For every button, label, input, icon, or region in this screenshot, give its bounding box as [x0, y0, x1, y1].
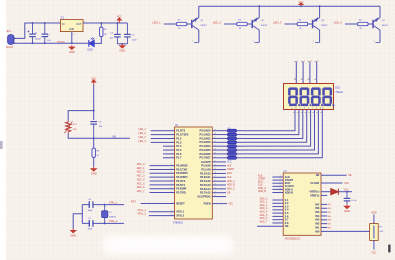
wire: P0.3 to resistor — [212, 141, 227, 143]
svg-text:39: 39 — [214, 129, 216, 131]
svg-text:34: 34 — [214, 149, 216, 151]
wire: MCU right pin row 2 — [212, 169, 226, 171]
wire: resistor to segment bus row 0 — [237, 130, 245, 132]
svg-text:IN: IN — [62, 23, 65, 26]
svg-text:9v DC: 9v DC — [6, 46, 13, 49]
wire: resistor to segment bus row 3 — [237, 141, 245, 143]
svg-text:P3.6/WR: P3.6/WR — [176, 187, 186, 191]
wire: VREF+ to diode — [321, 191, 331, 193]
wire: LED_3 to P1.2 — [151, 138, 175, 140]
svg-text:ADC_7: ADC_7 — [260, 220, 268, 223]
svg-text:10K: 10K — [73, 129, 77, 131]
wire: ADC_6 to P3.6 — [150, 188, 175, 190]
pin tick collector 1 — [194, 41, 199, 43]
wire: C3/C4 bottoms join — [117, 43, 127, 45]
resistor R2b segment array — [227, 133, 236, 136]
svg-text:RESET: RESET — [176, 201, 185, 205]
svg-text:35: 35 — [214, 145, 216, 147]
svg-text:S9012: S9012 — [200, 25, 207, 27]
wire: ADC_5 to P3.5 — [150, 184, 175, 186]
junction: crystal bottom — [104, 222, 106, 224]
svg-text:P1.7: P1.7 — [176, 156, 182, 160]
svg-text:18: 18 — [171, 214, 173, 216]
display digit 4 — [322, 87, 334, 106]
ground (vref cap) — [343, 204, 351, 209]
svg-text:2: 2 — [304, 61, 305, 63]
svg-text:7: 7 — [171, 153, 172, 155]
svg-text:RST: RST — [131, 201, 136, 204]
wire: MCU right pin row 9 — [212, 196, 226, 198]
svg-text:29: 29 — [214, 168, 216, 170]
svg-text:12: 12 — [171, 172, 173, 174]
wire: collector down — [319, 30, 321, 42]
wire: VCC down to divider — [93, 85, 95, 120]
junction: C1 top — [32, 22, 34, 24]
svg-text:9: 9 — [302, 78, 303, 80]
svg-text:ALE: ALE — [227, 164, 232, 167]
wire: P0.6 to resistor — [212, 153, 227, 155]
wire: crystal left bus — [81, 205, 83, 224]
wire: PSEN pin stub — [212, 203, 227, 205]
resistor R5 base body — [358, 22, 369, 25]
svg-text:P0.3/AD3: P0.3/AD3 — [200, 140, 212, 144]
wire: gnd stub — [73, 214, 82, 229]
wire: thermistor bottom to net — [68, 133, 130, 138]
display digit 2 — [300, 87, 312, 106]
wire: emitter to VCC rail — [319, 6, 321, 17]
wire: resistor to base — [308, 23, 313, 25]
svg-text:P2.7/A15: P2.7/A15 — [200, 191, 211, 195]
svg-text:GND: GND — [69, 29, 74, 31]
wire: ADC_2 to P3.2 — [150, 172, 175, 174]
wire: EOC to ADC — [272, 182, 283, 184]
wire: resistor to base — [247, 23, 252, 25]
svg-text:XTAL_2: XTAL_2 — [109, 220, 118, 223]
wire: ADC_2 data pin — [272, 206, 283, 208]
svg-text:15: 15 — [171, 183, 173, 185]
svg-text:10: 10 — [171, 164, 173, 166]
svg-text:IN4: IN4 — [315, 214, 320, 218]
wire: node down to R6 — [93, 138, 95, 148]
svg-text:XTAL_1: XTAL_1 — [137, 209, 146, 212]
pin tick collector 2 — [255, 41, 260, 43]
resistor R2 base body — [176, 22, 187, 25]
svg-text:ADC_6: ADC_6 — [137, 186, 145, 189]
wire: P0.7 to resistor — [212, 157, 227, 159]
resistor R2h segment array — [227, 156, 236, 159]
svg-text:IN1: IN1 — [315, 225, 320, 229]
svg-text:CLOCK: CLOCK — [310, 181, 319, 185]
svg-text:P1.2: P1.2 — [176, 136, 182, 140]
wire: P1.4 pin stub — [163, 145, 175, 147]
svg-text:P1.3: P1.3 — [176, 140, 182, 144]
junction: emitter/rail — [258, 5, 260, 7]
svg-text:23: 23 — [279, 179, 281, 181]
capacitor C3 — [114, 23, 121, 44]
svg-text:OE: OE — [348, 174, 352, 177]
svg-text:OE: OE — [285, 224, 289, 228]
ground (crystal caps) — [69, 229, 77, 234]
svg-text:P3.7/RD: P3.7/RD — [176, 190, 186, 194]
wire: P0.2 to resistor — [212, 137, 227, 139]
svg-text:ADC_4: ADC_4 — [137, 178, 145, 181]
wire: VCC rail for digit drivers — [199, 5, 380, 7]
svg-text:ADC0809LCN: ADC0809LCN — [285, 237, 300, 240]
pin number 9 — [301, 79, 303, 81]
wire: IN7 stub — [321, 203, 327, 205]
resistor R2c segment array — [227, 137, 236, 140]
diode D1 (VREF supply) — [331, 189, 339, 195]
svg-text:P1.5: P1.5 — [176, 148, 182, 152]
svg-text:GND: GND — [119, 49, 125, 53]
svg-text:30: 30 — [214, 164, 216, 166]
wire: XTAL2 net — [82, 222, 124, 224]
svg-text:START: START — [227, 168, 235, 171]
svg-text:2: 2 — [171, 133, 172, 135]
wire: P1.6 pin stub — [163, 153, 175, 155]
svg-text:ADC_1: ADC_1 — [137, 167, 145, 170]
svg-text:EOC: EOC — [227, 173, 232, 175]
svg-text:VCC: VCC — [371, 251, 376, 254]
wire: segment d routing — [244, 110, 307, 143]
svg-text:LED_3: LED_3 — [138, 136, 146, 139]
svg-text:1: 1 — [192, 40, 193, 42]
wire: ADC OE/gnd pin — [257, 225, 283, 227]
resistor R6 body — [92, 148, 95, 158]
svg-text:S9012: S9012 — [382, 25, 389, 27]
wire: resistor to segment bus row 4 — [237, 145, 245, 147]
wire: ADC_3 to P3.3 — [150, 176, 175, 178]
junction: C2 top — [44, 22, 46, 24]
svg-text:P0.0/AD0: P0.0/AD0 — [200, 129, 212, 133]
wire: MCU right pin row 7 — [212, 188, 226, 190]
wire: MCU right pin row 1 — [212, 165, 226, 167]
svg-text:P3.2/INT0: P3.2/INT0 — [176, 171, 188, 175]
wire: ADC_0 data pin — [272, 199, 283, 201]
wire: pot bottom lead — [373, 240, 375, 249]
resistor R2g segment array — [227, 152, 236, 155]
capacitor C5 — [90, 122, 97, 139]
svg-text:3: 3 — [171, 137, 172, 139]
svg-text:P0.6/AD6: P0.6/AD6 — [200, 152, 212, 156]
resistor R2a segment array — [227, 129, 236, 132]
svg-text:5: 5 — [171, 145, 172, 147]
junction: regulator gnd / rail — [71, 42, 73, 44]
svg-text:P3.5/T1: P3.5/T1 — [176, 183, 186, 187]
svg-text:VCC: VCC — [117, 15, 122, 18]
svg-text:7: 7 — [315, 78, 316, 80]
wire: MCU right pin row 5 — [212, 180, 226, 182]
svg-text:ADC_3: ADC_3 — [137, 175, 145, 178]
svg-text:ADD_C: ADD_C — [227, 187, 235, 190]
svg-text:27: 27 — [214, 176, 216, 178]
svg-text:P2.5/A13: P2.5/A13 — [200, 183, 211, 187]
svg-text:2: 2 — [253, 40, 254, 42]
svg-text:3: 3 — [311, 61, 312, 63]
svg-text:IN6: IN6 — [315, 206, 320, 210]
wire: ground rail from connector — [15, 42, 88, 44]
wire: resistor to segment bus row 6 — [237, 153, 245, 155]
wire: resistor to segment bus row 5 — [237, 149, 245, 151]
wire: P0.0 to resistor — [212, 130, 227, 132]
junction: rail/VCC — [300, 5, 302, 7]
svg-text:OE: OE — [316, 173, 320, 177]
svg-text:26: 26 — [214, 180, 216, 182]
wire: resistor to segment bus row 7 — [237, 157, 245, 159]
svg-text:XTAL_1: XTAL_1 — [109, 201, 118, 204]
svg-text:27: 27 — [279, 191, 281, 193]
transistor Q3 S9012 PNP — [313, 18, 320, 30]
svg-text:IN2: IN2 — [315, 222, 320, 226]
wire: IN5 stub — [321, 211, 327, 213]
wire: CLK to ADC — [272, 185, 283, 187]
wire: LED cathode to ground rail — [88, 42, 89, 44]
wire: ADC_7 data pin — [272, 222, 283, 224]
svg-text:AT89S52: AT89S52 — [173, 222, 183, 225]
wire: ADC_1 data pin — [272, 202, 283, 204]
svg-text:P3.4/T0: P3.4/T0 — [176, 179, 186, 183]
wire: IN1 stub — [321, 227, 327, 229]
svg-text:17: 17 — [171, 191, 173, 193]
svg-text:ADC_2: ADC_2 — [137, 171, 145, 174]
white margin strip (left edge) — [0, 0, 6, 260]
svg-text:LED_2: LED_2 — [213, 20, 222, 24]
svg-text:25: 25 — [214, 184, 216, 186]
microcontroller U2 AT89S52 — [175, 127, 213, 219]
svg-text:22: 22 — [214, 195, 216, 197]
resistor R3 base body — [237, 22, 248, 25]
svg-text:VCC: VCC — [91, 77, 96, 80]
pin number 8 — [308, 79, 310, 81]
svg-text:IN3: IN3 — [315, 218, 320, 222]
wire: segment g routing — [244, 110, 318, 154]
svg-text:GND: GND — [344, 209, 350, 213]
wire: P0.1 to resistor — [212, 134, 227, 136]
svg-text:PSEN: PSEN — [204, 202, 211, 206]
svg-text:P2.2/A10: P2.2/A10 — [200, 171, 211, 175]
junction: divider node — [93, 137, 95, 139]
svg-text:LED1: LED1 — [87, 50, 93, 52]
svg-text:ADD-B: ADD-B — [285, 190, 293, 194]
wire: segment c routing — [244, 110, 303, 139]
svg-text:P2.1/A9: P2.1/A9 — [201, 168, 211, 172]
crystal Y1 — [102, 205, 108, 224]
svg-text:XTAL1: XTAL1 — [176, 210, 184, 214]
svg-text:28: 28 — [214, 172, 216, 174]
svg-text:4: 4 — [317, 61, 318, 63]
wire: segment h routing — [244, 110, 322, 158]
wire: ADC_7 to P3.7 — [150, 192, 175, 194]
ground (sensor divider) — [90, 167, 98, 172]
svg-text:26: 26 — [279, 188, 281, 190]
wire: emitter to VCC rail — [258, 6, 260, 17]
svg-text:ADC_5: ADC_5 — [137, 182, 145, 185]
capacitor C8 0.1uF — [344, 192, 351, 205]
wire: MCU right pin row 0 — [212, 161, 226, 163]
corner mark — [388, 245, 390, 253]
wire: ADC_3 data pin — [272, 209, 283, 211]
wire: MCU right pin row 4 — [212, 176, 226, 178]
svg-text:12MHz: 12MHz — [109, 217, 116, 219]
wire: P1.7 pin stub — [163, 157, 175, 159]
svg-text:CLK: CLK — [227, 177, 232, 179]
svg-text:22: 22 — [279, 176, 281, 178]
pin tick collector 3 — [315, 41, 320, 43]
wire: IN0 to potentiometer — [321, 230, 370, 232]
svg-text:16: 16 — [171, 187, 173, 189]
svg-text:LED_4: LED_4 — [138, 140, 146, 143]
svg-text:GND: GND — [91, 172, 97, 176]
pin number 10 — [294, 79, 296, 81]
capacitor C7 30pF — [89, 220, 94, 227]
svg-text:1: 1 — [171, 129, 172, 131]
wire: R6 to ground — [93, 158, 95, 167]
wire: diode to VCC — [338, 191, 352, 193]
svg-text:4: 4 — [171, 141, 172, 143]
VCC power symbol (5V rail) — [117, 18, 121, 23]
wire: digit common pin 3 — [309, 62, 311, 84]
junction: cap gnd join — [121, 43, 123, 45]
svg-text:7SEG4: 7SEG4 — [335, 91, 343, 94]
svg-text:6: 6 — [171, 149, 172, 151]
svg-text:S9012: S9012 — [321, 25, 328, 27]
connector J1 9V DC input — [8, 35, 16, 45]
svg-text:LED_1: LED_1 — [138, 128, 146, 131]
svg-text:8: 8 — [171, 156, 172, 158]
svg-text:P2.0/A8: P2.0/A8 — [201, 164, 211, 168]
wire: base net 4 — [345, 23, 357, 25]
svg-text:10uF: 10uF — [132, 39, 138, 41]
capacitor C6 30pF — [89, 201, 94, 208]
svg-text:ADD_B: ADD_B — [258, 190, 266, 193]
svg-text:P1.4: P1.4 — [176, 144, 182, 148]
svg-text:OUT: OUT — [76, 23, 82, 26]
wire: collector down — [258, 30, 260, 42]
resistor R2e segment array — [227, 145, 236, 148]
wire: LED_4 to P1.3 — [151, 141, 175, 143]
wire: resistor to segment bus row 2 — [237, 137, 245, 139]
pin number 7 — [315, 79, 317, 81]
svg-text:VREF(+): VREF(+) — [309, 190, 319, 194]
svg-text:0.1uF: 0.1uF — [351, 200, 357, 202]
junction: emitter/rail — [319, 5, 321, 7]
svg-text:XTAL_2: XTAL_2 — [137, 213, 146, 216]
svg-text:P3.1/TXD: P3.1/TXD — [176, 167, 187, 171]
wire: CLOCK net — [321, 182, 343, 184]
svg-text:ALE/PROG: ALE/PROG — [197, 194, 210, 198]
wire: branch to thermistor — [68, 111, 94, 121]
ground (filter caps) — [119, 44, 127, 49]
resistor R4 base body — [297, 22, 308, 25]
resistor R2f segment array — [227, 149, 236, 152]
wire: MCU right pin row 8 — [212, 192, 226, 194]
wire: XTAL1 net — [82, 204, 124, 206]
svg-text:14: 14 — [171, 180, 173, 182]
svg-text:OE: OE — [227, 192, 231, 194]
svg-text:VCC: VCC — [298, 1, 303, 4]
svg-text:P1.6: P1.6 — [176, 152, 182, 156]
wire: ALE to ADC — [272, 176, 283, 178]
svg-text:P2.4/A12: P2.4/A12 — [200, 179, 211, 183]
junction: C2 bottom — [44, 42, 46, 44]
wire: ADC_5 data pin — [272, 215, 283, 217]
VCC power symbol (sensor) — [92, 80, 96, 85]
wire: 5V output rail — [83, 22, 127, 24]
svg-text:P0.2/AD2: P0.2/AD2 — [200, 136, 212, 140]
svg-text:9V+: 9V+ — [7, 30, 12, 33]
wire: emitter to VCC rail — [198, 6, 200, 17]
wire: digit common pin 2 — [302, 62, 304, 84]
wire: P0.5 to resistor — [212, 149, 227, 151]
VCC power symbol (driver rail) — [299, 3, 303, 6]
transistor Q1 S9012 PNP — [192, 18, 199, 30]
svg-text:13: 13 — [171, 176, 173, 178]
svg-text:P3.3/INT1: P3.3/INT1 — [176, 175, 188, 179]
svg-text:36: 36 — [214, 141, 216, 143]
wire: connector top pin to input rail riser — [15, 23, 61, 38]
ground (regulator) — [68, 45, 76, 50]
svg-text:LED_3: LED_3 — [273, 20, 282, 24]
svg-text:GND: GND — [371, 211, 377, 214]
svg-text:P2.3/A11: P2.3/A11 — [200, 175, 211, 179]
svg-text:19: 19 — [171, 210, 173, 212]
svg-text:24: 24 — [214, 187, 216, 189]
svg-text:9: 9 — [171, 202, 172, 204]
svg-text:25: 25 — [279, 185, 281, 187]
svg-text:10: 10 — [294, 78, 296, 80]
junction: VCC/C3 tap — [116, 22, 118, 24]
svg-text:VREF(-): VREF(-) — [310, 193, 319, 197]
resistor R2d segment array — [227, 141, 236, 144]
thermistor RT1 — [64, 121, 72, 134]
svg-text:ADC_7: ADC_7 — [137, 190, 145, 193]
wire: digit common pin 4 — [316, 62, 318, 84]
svg-text:VCC: VCC — [344, 188, 349, 191]
svg-text:P3.0/RXD: P3.0/RXD — [176, 164, 187, 168]
junction: vref cap tap — [346, 191, 348, 193]
junction: crystal top — [104, 204, 106, 206]
LED1 power indicator — [89, 37, 95, 46]
wire: base net 1 — [164, 23, 176, 25]
svg-text:DS2: DS2 — [335, 87, 340, 90]
svg-text:LED_1: LED_1 — [152, 20, 161, 24]
svg-text:LM7805: LM7805 — [57, 41, 66, 43]
svg-text:24: 24 — [279, 182, 281, 184]
wire: ADD_B to ADC — [272, 192, 283, 194]
svg-text:33: 33 — [214, 153, 216, 155]
wire: IN3 stub — [321, 219, 327, 221]
voltage regulator IC1 7805 — [60, 20, 83, 32]
wire: segment e routing — [244, 110, 311, 147]
svg-text:30pF: 30pF — [88, 210, 94, 212]
svg-text:100uF: 100uF — [35, 39, 42, 41]
svg-text:ADD_A: ADD_A — [227, 180, 235, 183]
svg-text:ADD_B: ADD_B — [227, 184, 235, 187]
wire: ADC_6 data pin — [272, 219, 283, 221]
wire: XTAL2 pin — [149, 215, 175, 217]
svg-text:31: 31 — [214, 161, 216, 163]
junction: resistor R1 tap — [100, 22, 102, 24]
wire: VREF- stub — [321, 194, 327, 196]
svg-text:LED_2: LED_2 — [138, 132, 146, 135]
wire: R1 bottom to LED — [95, 37, 102, 44]
svg-text:XTAL2: XTAL2 — [176, 214, 184, 218]
wire: ADC_4 to P3.4 — [150, 180, 175, 182]
svg-text:IN0: IN0 — [315, 229, 320, 233]
wire: ADD_A to ADC — [272, 188, 283, 190]
wire: segment a routing — [244, 110, 295, 131]
wire: resistor to segment bus row 1 — [237, 134, 245, 136]
